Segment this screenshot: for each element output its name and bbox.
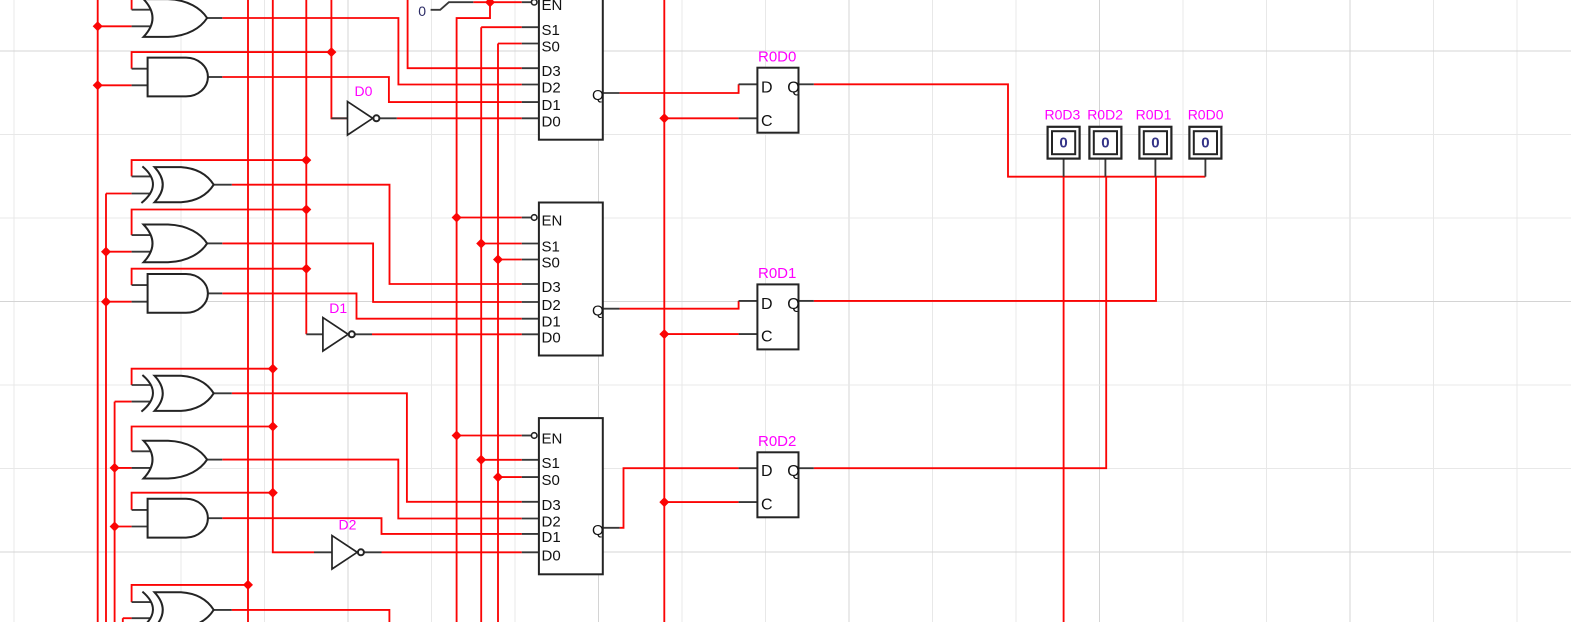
svg-text:D1: D1	[542, 314, 561, 331]
svg-text:0: 0	[1201, 135, 1209, 152]
svg-text:D0: D0	[542, 329, 561, 346]
svg-text:D0: D0	[542, 113, 561, 130]
svg-text:Q: Q	[592, 303, 604, 320]
svg-text:S0: S0	[542, 472, 560, 489]
svg-text:S1: S1	[542, 22, 560, 39]
svg-text:D2: D2	[542, 80, 561, 97]
svg-text:S0: S0	[542, 255, 560, 272]
svg-text:D: D	[761, 79, 773, 96]
svg-text:S1: S1	[542, 239, 560, 256]
svg-text:D2: D2	[542, 297, 561, 314]
svg-text:D3: D3	[542, 63, 561, 80]
svg-text:0: 0	[1151, 135, 1159, 152]
svg-text:R0D2: R0D2	[1087, 107, 1123, 123]
svg-text:S0: S0	[542, 39, 560, 56]
svg-text:D3: D3	[542, 497, 561, 514]
svg-text:R0D0: R0D0	[758, 48, 796, 65]
svg-text:D: D	[761, 463, 773, 480]
svg-text:D0: D0	[355, 83, 373, 99]
svg-text:EN: EN	[542, 0, 563, 14]
svg-text:R0D0: R0D0	[1188, 107, 1224, 123]
svg-text:S1: S1	[542, 455, 560, 472]
svg-text:D: D	[761, 296, 773, 313]
svg-text:0: 0	[1059, 135, 1067, 152]
svg-text:0: 0	[1101, 135, 1109, 152]
svg-text:Q: Q	[787, 79, 799, 96]
svg-text:EN: EN	[542, 213, 563, 230]
svg-text:D1: D1	[329, 300, 347, 316]
svg-text:D3: D3	[542, 279, 561, 296]
svg-text:D1: D1	[542, 97, 561, 114]
svg-text:D1: D1	[542, 529, 561, 546]
svg-text:Q: Q	[787, 296, 799, 313]
svg-text:C: C	[761, 497, 773, 514]
svg-text:0: 0	[418, 3, 426, 19]
svg-text:R0D2: R0D2	[758, 433, 796, 450]
svg-text:Q: Q	[592, 87, 604, 104]
svg-text:Q: Q	[787, 463, 799, 480]
svg-text:R0D1: R0D1	[1136, 107, 1172, 123]
svg-text:Q: Q	[592, 522, 604, 539]
svg-text:EN: EN	[542, 431, 563, 448]
svg-text:D0: D0	[542, 547, 561, 564]
svg-text:R0D3: R0D3	[1045, 107, 1081, 123]
svg-text:C: C	[761, 113, 773, 130]
svg-text:R0D1: R0D1	[758, 265, 796, 282]
svg-text:D2: D2	[339, 516, 357, 532]
svg-text:C: C	[761, 329, 773, 346]
